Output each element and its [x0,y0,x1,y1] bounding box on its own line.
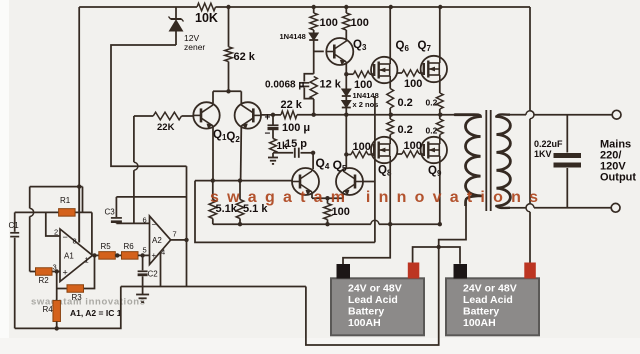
svg-text:A1, A2 = IC 1: A1, A2 = IC 1 [70,308,122,318]
terminal output top [612,110,621,119]
svg-text:−: − [265,129,271,140]
node 15p-Q4 [311,151,315,155]
resistor 0.2 Q9 drain [439,115,441,119]
svg-text:10K: 10K [195,11,218,25]
node pin3 [55,269,59,273]
wire diode column to lower gates [345,115,347,155]
wire battery1 negative [343,224,390,265]
wire top positive rail [79,6,197,8]
wire Q2 base bus to transformer [261,114,281,116]
node R4 bottom [55,326,59,330]
wire negative bus [213,223,371,225]
resistor R6 [122,252,139,260]
wire battery2 negative [439,247,460,264]
ground C2 [136,294,149,296]
capacitor 15p [273,152,293,154]
wire battery2 positive [529,212,531,264]
transistor Q3 [345,30,347,42]
resistor 1k [270,139,277,154]
svg-text:100: 100 [404,140,422,152]
node output [92,253,96,257]
wire Q7 drain [439,7,441,57]
svg-text:R3: R3 [72,293,83,302]
svg-text:0.2: 0.2 [398,97,413,109]
svg-text:24V or 48V: 24V or 48V [348,283,402,295]
node R5 R6 [115,253,119,257]
node 02a bus [389,113,393,117]
svg-text:100: 100 [320,17,338,29]
wire ground bus [121,286,306,288]
svg-text:R6: R6 [124,242,135,251]
svg-text:Lead Acid: Lead Acid [463,294,513,306]
resistor R4 [53,301,61,322]
resistor 22K [134,115,153,117]
svg-text:100: 100 [332,206,350,218]
svg-text:5: 5 [143,246,147,255]
transistor Q1 [193,102,219,128]
svg-text:−: − [152,220,157,229]
diodes 1N4148 x 2 nos [342,89,351,96]
wire R1 line [15,211,59,213]
capacitor 0.22uF 1KV [566,115,568,153]
svg-text:2: 2 [54,228,58,237]
capacitor 100u electrolytic [272,115,274,125]
wire left frame [78,7,80,243]
transistor Q2 [235,102,261,128]
resistor R3 [67,285,84,293]
svg-text:C3: C3 [105,208,116,217]
wire feedback line [116,196,186,198]
svg-text:−: − [63,232,68,242]
svg-text:+: + [265,113,271,124]
resistor 0.2 Q8 drain [389,115,391,119]
capacitor C3 [115,197,117,217]
svg-text:62 k: 62 k [234,51,256,63]
resistor 0.2 Q6 source [389,83,391,89]
node Q1 emitter [211,178,215,182]
svg-text:A1: A1 [64,252,74,261]
transistor Q5 [336,168,363,195]
svg-text:100: 100 [353,141,371,153]
resistor 100 gate Q9 [397,153,402,155]
wire pin6 line [116,222,149,224]
svg-text:1KV: 1KV [534,149,552,159]
transistor Q4 [292,168,319,195]
node Q2 emitter [238,178,242,182]
capacitor 0.0068u with 12k [304,74,313,82]
svg-text:7: 7 [173,230,177,239]
resistor 10K [197,3,216,11]
wire Q2 emitter [240,127,243,180]
wire pin4 down [160,252,162,287]
wire Q3 emitter to gate node [345,63,347,74]
node 100u [271,113,275,117]
wire drive column vertical [374,96,376,242]
ground 1k [272,153,274,157]
svg-text:R1: R1 [60,196,71,205]
node rail-Q6 drain [389,5,393,9]
resistor R1 [59,209,76,217]
wire R1 right to output [82,187,84,213]
svg-text:4: 4 [161,248,165,257]
resistor 100 gate Q8 [346,154,351,156]
wire Q3 base [314,50,324,52]
svg-text:15 p: 15 p [285,138,307,150]
svg-text:12 k: 12 k [320,79,342,91]
battery B2 24V/48V [446,278,539,335]
svg-text:A2: A2 [152,236,162,245]
svg-text:0.22uF: 0.22uF [534,139,563,149]
resistor 0.2 Q7 source [439,82,441,94]
node rail-Q7 drain [438,5,442,9]
svg-text:8: 8 [73,237,77,246]
svg-text:100 μ: 100 μ [282,122,310,134]
wire Q5 collector [345,155,347,170]
node pin7 [184,238,188,242]
wire 22K to pin6 with hop [133,116,135,162]
node 02b bus [438,113,442,117]
svg-text:zener: zener [184,42,205,52]
wire pin3 line [30,271,36,273]
resistor R2 [36,268,53,276]
mosfet Q9 [421,137,447,163]
svg-text:Battery: Battery [348,306,384,318]
node 100 bottom [325,222,329,226]
capacitor C2 [142,255,144,270]
node emitter 100 [325,196,329,200]
wire drive bus lower [195,181,375,243]
terminal output bottom [611,203,620,212]
resistor 22 k [281,111,297,119]
op-amp A1 [60,229,93,282]
svg-text:0.2: 0.2 [426,126,438,136]
resistor 62k [228,7,230,47]
svg-text:100: 100 [404,78,422,90]
wire op-amp top rail [30,186,83,188]
op-amp A2 [150,216,171,265]
node diode bus [344,113,348,117]
svg-text:0.2: 0.2 [426,98,438,108]
svg-text:0.2: 0.2 [398,124,413,136]
wire Q9 source [439,163,441,225]
resistor 100 second [345,7,347,13]
wire rail down right side with hops [529,7,531,111]
node rail-100a [312,5,316,9]
wire left branch with hop [29,187,31,209]
diode 1N4148 [313,30,315,33]
mosfet Q8 [371,137,397,163]
resistor 100 gate Q7 [397,72,402,74]
wire Q1 Q2 collector bus [213,90,241,92]
wire Q5 base to drive column [363,181,375,183]
svg-text:C2: C2 [148,270,159,279]
wire Q8 source [389,163,391,225]
resistor 100 first [313,7,315,13]
node rail-62k [226,5,230,9]
svg-text:100AH: 100AH [463,317,496,329]
transformer core [485,110,487,211]
zener diode 12V [175,7,177,19]
wire pin2 jog [46,212,60,236]
mosfet Q7 [421,56,447,82]
svg-text:R4: R4 [43,305,54,314]
node gate top [344,72,348,76]
svg-text:1N4148: 1N4148 [280,32,306,41]
wire R4 column [56,272,58,301]
svg-text:+: + [63,268,68,278]
node rail-100b [344,5,348,9]
resistor 100 gate Q6 [346,73,353,75]
node Q8 source bus [388,222,392,226]
svg-text:+: + [152,251,157,260]
svg-text:R5: R5 [101,242,112,251]
wire pin8 [78,187,80,243]
svg-text:100: 100 [354,79,372,91]
mosfet Q6 [371,57,397,83]
wire output to R5 [93,254,99,256]
svg-text:22 k: 22 k [281,99,303,111]
transformer primary winding [455,115,481,196]
wire output top [510,114,526,116]
wire Q4 Q5 emitter bus [312,197,343,199]
svg-text:Lead Acid: Lead Acid [348,294,398,306]
node 12k bus [312,113,316,117]
battery B1 24V/48V [331,278,424,335]
wire output bottom [510,207,526,209]
resistor 5.1k first [212,181,214,200]
wire center tap to transformer and ground [306,198,466,345]
wire R3 line [57,288,67,290]
node Q9 source bus [438,222,442,226]
wire ground drop right of op-amps [186,166,188,286]
wire pin5 line [138,254,150,256]
svg-text:0.0068 μ: 0.0068 μ [265,80,304,91]
wire Q1 emitter [212,127,214,180]
transformer secondary winding [497,117,511,207]
svg-text:1: 1 [85,256,89,265]
resistor 12k [310,77,317,100]
svg-text:100AH: 100AH [348,317,381,329]
resistor 5.1k second [239,181,241,200]
node C2 [140,253,144,257]
wire base bus Q4 [195,180,292,182]
resistor R5 [99,252,116,260]
wire zener anode to ground line [111,45,187,166]
wire 15p to Q4 collector [312,153,314,169]
node 5.1k b [238,222,242,226]
svg-text:R2: R2 [39,276,50,285]
svg-text:Output: Output [600,172,636,184]
wire pin7 [171,239,187,241]
svg-text:24V or 48V: 24V or 48V [463,283,517,295]
node lower gate [344,152,348,156]
svg-text:100: 100 [351,17,369,29]
wire Q6 drain [389,7,391,58]
wire battery1 positive [413,247,439,263]
capacitor C1 [14,212,16,231]
resistor 100 emitter [327,198,329,203]
node battery junction [437,245,441,249]
svg-text:C1: C1 [9,221,20,230]
svg-text:22K: 22K [157,122,175,133]
svg-text:Battery: Battery [463,306,499,318]
wire bottom left bus [15,287,121,329]
